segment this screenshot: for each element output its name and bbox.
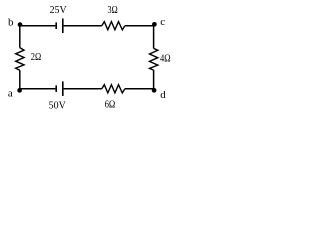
svg-text:50V: 50V: [49, 100, 66, 112]
wire left upper (b to R 2ohm): [19, 26, 21, 48]
node b dot: [18, 22, 23, 27]
node a dot: [17, 88, 22, 93]
resistor R 2ohm: [16, 48, 24, 71]
resistor R 4ohm: [150, 48, 158, 70]
node d dot: [152, 88, 157, 93]
svg-text:c: c: [160, 16, 165, 28]
svg-text:d: d: [160, 89, 166, 101]
wire top-left (b to battery): [20, 25, 56, 27]
battery V2 50V: [56, 81, 63, 96]
wire bottom-middle (battery to R 6ohm): [64, 88, 102, 90]
svg-text:6Ω: 6Ω: [105, 99, 116, 111]
wire bottom-right (R to d): [125, 88, 154, 90]
svg-text:25V: 25V: [50, 4, 67, 16]
svg-text:b: b: [8, 16, 14, 28]
svg-text:4Ω: 4Ω: [160, 53, 171, 65]
wire top-right (R to c): [125, 25, 154, 27]
svg-text:3Ω: 3Ω: [108, 4, 118, 16]
wire left lower (R to a): [19, 70, 21, 89]
wire top-middle (battery to R 3ohm): [64, 25, 102, 27]
resistor R 6ohm: [102, 85, 125, 93]
svg-text:2Ω: 2Ω: [31, 51, 41, 63]
resistor R 3ohm: [102, 22, 125, 30]
svg-text:a: a: [8, 88, 13, 100]
node c dot: [152, 22, 157, 27]
wire right lower (R to d): [153, 70, 155, 89]
battery V1 25V: [56, 19, 63, 34]
wire bottom-left (a to battery): [20, 88, 56, 90]
wire right upper (c to R 4ohm): [153, 26, 155, 49]
